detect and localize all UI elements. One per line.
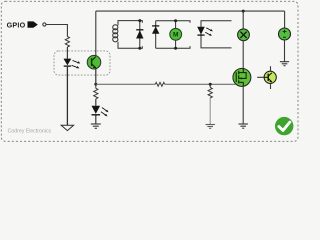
LED D5 triangle — [197, 27, 205, 35]
check badge — [275, 117, 293, 135]
wire collector up to top rail — [95, 11, 97, 56]
battery BAT1 circle — [279, 28, 291, 40]
relay load box K1 — [118, 21, 142, 49]
diode D3 bar — [136, 29, 143, 31]
svg-text:Codrey Electronics: Codrey Electronics — [8, 128, 52, 134]
wire mosfet source to ground — [242, 86, 244, 124]
mosfet Q1 circle — [233, 68, 251, 86]
motor load box M1 — [156, 21, 190, 49]
ground (emitter branch) — [91, 124, 101, 128]
flyback diode D3 line — [139, 21, 141, 49]
page dashed border — [1, 1, 298, 141]
node motor bottom — [174, 47, 177, 50]
GPIO terminal circle — [43, 23, 46, 26]
wire to indicator LED — [95, 99, 97, 106]
ground (battery) — [280, 62, 289, 66]
check mark — [279, 122, 290, 130]
resistor R3 (emitter branch, vertical) — [94, 84, 98, 99]
resistor R2 (horizontal on gate rail) — [155, 82, 165, 86]
relay coil L1 — [113, 25, 118, 42]
node relay bottom — [138, 47, 141, 50]
opto LED bar — [64, 65, 71, 67]
ground (pulldown) — [206, 125, 215, 129]
motor diode D4 bar — [152, 25, 159, 27]
lamp LA1 circle — [238, 29, 250, 41]
bjt symbol — [264, 73, 272, 83]
wire to ground — [209, 98, 211, 125]
resistor R4 (gate pulldown, vertical) — [208, 87, 212, 98]
optocoupler dashed box U1 — [54, 51, 110, 75]
gate rail left segment — [96, 83, 155, 85]
diode D3 triangle — [136, 30, 143, 38]
LED load box D5 — [201, 21, 232, 48]
motor stubs — [175, 21, 177, 49]
lamp X — [240, 32, 246, 38]
junction node divider — [209, 83, 212, 86]
mosfet symbol — [236, 69, 246, 87]
battery minus — [283, 36, 286, 38]
node relay top — [138, 19, 141, 22]
bjt alternative Q2 stubs — [257, 66, 270, 89]
phototransistor symbol — [92, 57, 97, 69]
indicator LED D2 triangle — [92, 106, 101, 114]
wire battery to ground — [284, 40, 286, 62]
resistor R1 (input, vertical) — [65, 37, 69, 47]
wire emitter down to gate rail — [95, 69, 97, 85]
wire resistor to opto LED — [66, 47, 68, 59]
bjt Q2 circle — [264, 71, 276, 83]
wire top rail right corner to battery — [284, 11, 286, 28]
motor diode D4 triangle — [152, 26, 159, 33]
top rail — [96, 10, 285, 12]
wire divider resistor branch — [209, 84, 211, 87]
ground (mosfet source) — [239, 124, 248, 128]
wire rail to lamp — [242, 11, 244, 29]
GPIO pin tag — [28, 21, 38, 27]
opto emission arrows — [72, 60, 81, 68]
opto LED D1 triangle — [64, 59, 72, 66]
wire LED to ground — [95, 116, 97, 125]
wire opto LED cathode down — [66, 67, 68, 126]
LED D5 bar — [197, 34, 204, 36]
node lamp branch on top rail — [242, 10, 245, 13]
indicator LED bar — [92, 114, 101, 116]
motor M1 circle — [170, 28, 182, 40]
svg-text:GPIO: GPIO — [7, 21, 26, 30]
wire GPIO to input resistor — [46, 25, 67, 37]
opto phototransistor circle — [87, 55, 101, 69]
indicator LED arrows — [101, 108, 109, 117]
node motor top — [174, 19, 177, 22]
battery plus — [283, 30, 287, 34]
wire lamp to mosfet drain — [242, 40, 244, 68]
svg-text:M: M — [173, 32, 179, 39]
junction node emitter/divider — [94, 83, 97, 86]
ground (open triangle) for opto LED — [61, 125, 73, 130]
gate rail right segment — [165, 83, 236, 85]
LED D5 arrows — [205, 28, 213, 36]
